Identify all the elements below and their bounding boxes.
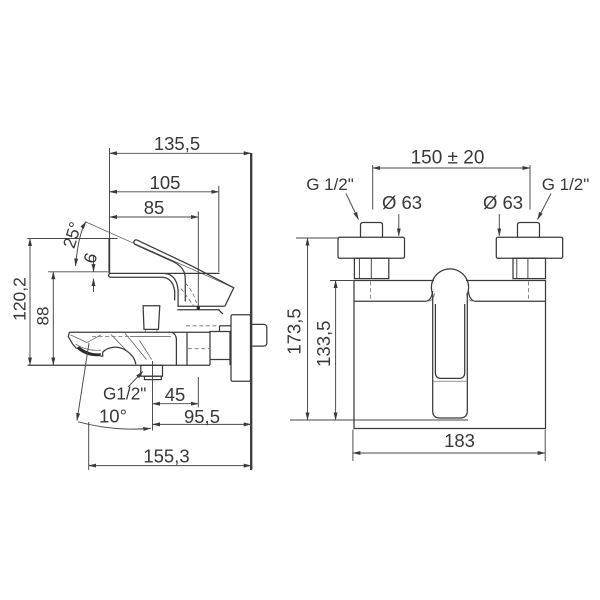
- shelf: [177, 306, 225, 310]
- body front edge: [172, 332, 177, 365]
- dim 150 +/- 20: [373, 148, 530, 210]
- svg-text:G 1/2": G 1/2": [306, 175, 354, 194]
- dim 155,3: [89, 422, 252, 470]
- wall fitting: [252, 324, 266, 346]
- dim 85: [110, 197, 199, 408]
- dim 135,5: [110, 133, 252, 154]
- dim 173,5: [284, 238, 469, 420]
- extension line left (lever tip): [108, 148, 110, 273]
- svg-text:Ø 63: Ø 63: [382, 192, 422, 213]
- body bottom line: [28, 364, 211, 366]
- spout tip outline: [68, 332, 136, 364]
- G1/2 label left view: [103, 372, 146, 404]
- dim 10 deg: [77, 343, 151, 429]
- svg-text:85: 85: [144, 197, 165, 218]
- body front view: [354, 281, 546, 429]
- svg-text:105: 105: [150, 172, 181, 193]
- svg-text:G1/2": G1/2": [103, 384, 146, 404]
- svg-text:183: 183: [444, 430, 475, 451]
- body top cap: [109, 273, 220, 306]
- svg-text:88: 88: [34, 307, 53, 326]
- right nut: [513, 258, 546, 278]
- dim 6: [79, 250, 101, 292]
- dim 45: [153, 361, 199, 431]
- left nut: [354, 258, 388, 278]
- shower outlet: [141, 365, 163, 379]
- flange (side): [231, 315, 251, 381]
- aerator dark band: [76, 346, 101, 356]
- svg-text:150 ± 20: 150 ± 20: [411, 148, 485, 169]
- dome fillets: [426, 291, 474, 301]
- dim 25 deg : ray and arc: [59, 219, 234, 287]
- G 1/2 label left: [306, 175, 358, 220]
- handle shaft: [433, 294, 468, 418]
- dim 95,5: [153, 406, 252, 427]
- dia 63 label right: [483, 192, 523, 236]
- notch near wall: [219, 310, 231, 332]
- svg-text:155,3: 155,3: [143, 445, 189, 466]
- dia 63 label left: [382, 192, 422, 236]
- svg-text:10°: 10°: [99, 406, 127, 427]
- dim 120,2: [10, 239, 118, 366]
- G 1/2 label right: [538, 175, 590, 220]
- svg-text:45: 45: [165, 384, 186, 405]
- svg-text:120,2: 120,2: [10, 277, 30, 321]
- svg-text:G 1/2": G 1/2": [542, 175, 590, 194]
- lever end cap: [192, 266, 234, 306]
- dim 88: [34, 272, 108, 365]
- left mount stub: [361, 223, 383, 238]
- left flange: [338, 237, 405, 258]
- right mount stub: [518, 223, 540, 238]
- wall block: [210, 332, 230, 366]
- svg-text:173,5: 173,5: [284, 308, 305, 354]
- pipe strip: [186, 326, 220, 365]
- spout internal lines: [70, 333, 171, 359]
- svg-text:95,5: 95,5: [184, 406, 220, 427]
- hidden cartridge lines: [181, 283, 197, 306]
- svg-text:133,5: 133,5: [313, 321, 334, 367]
- diverter knob: [143, 306, 160, 332]
- dim 183: [353, 430, 545, 462]
- svg-text:135,5: 135,5: [154, 133, 200, 154]
- right flange: [496, 237, 562, 258]
- wall line: [250, 153, 252, 470]
- spout top line: [69, 331, 210, 333]
- lever blade: [134, 240, 192, 302]
- dim 133,5: [313, 281, 355, 421]
- handle dome: [431, 269, 468, 294]
- svg-text:Ø 63: Ø 63: [483, 192, 523, 213]
- dim 105: [110, 172, 219, 272]
